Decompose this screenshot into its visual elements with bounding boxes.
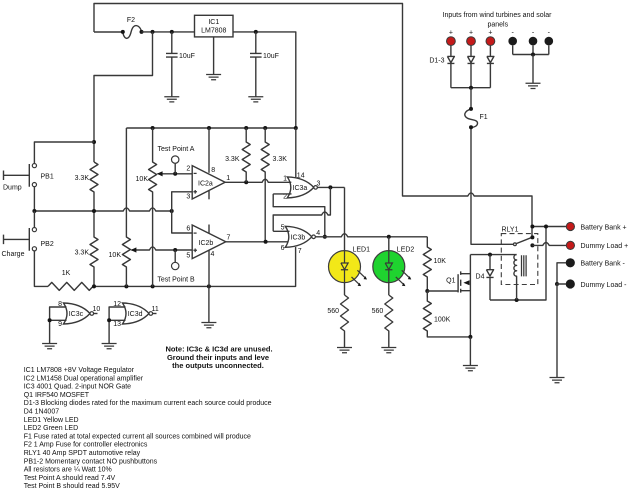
svg-text:Test Point A should read 7.4V: Test Point A should read 7.4V (24, 475, 116, 482)
svg-text:560: 560 (372, 308, 384, 315)
ground output cap (248, 97, 263, 102)
diode D2 (468, 46, 475, 88)
resistor 100K gate pulldown (423, 291, 470, 337)
LED2 emission arrows (396, 270, 410, 284)
junction dot minus junction (555, 282, 559, 286)
junction dot F2 left (121, 30, 125, 34)
relay RLY1 dashed box (501, 234, 538, 285)
output bubble IC3d (149, 312, 153, 316)
ground LED2 (381, 348, 396, 353)
svg-text:F2 1 Amp Fuse for controller e: F2 1 Amp Fuse for controller electronics (24, 442, 148, 449)
wire: ground rail (93, 247, 296, 286)
fuse F1 (465, 109, 478, 127)
junction dot test point B (173, 248, 177, 252)
output bubble IC3c (90, 312, 94, 316)
terminal Battery Bank - (566, 259, 574, 267)
svg-text:F1: F1 (480, 114, 488, 121)
wire: minus junction to ground (557, 284, 566, 378)
junction dot pullup2 top (263, 126, 267, 130)
svg-text:+: + (449, 30, 453, 37)
svg-text:5: 5 (186, 253, 190, 260)
svg-text:10uF: 10uF (179, 53, 195, 60)
wire: source ground stub (469, 337, 471, 366)
svg-text:D4 1N4007: D4 1N4007 (24, 409, 60, 416)
resistor 3.3K lower divider (90, 211, 98, 286)
NOR gate IC3b (285, 226, 312, 247)
relay coil (514, 255, 517, 300)
relay common pivot (514, 243, 517, 246)
svg-text:IC2b: IC2b (199, 240, 214, 247)
svg-text:13: 13 (113, 321, 121, 328)
terminal Dummy Load + (566, 241, 574, 249)
svg-text:LED1 Yellow LED: LED1 Yellow LED (24, 417, 79, 424)
svg-text:10K: 10K (136, 176, 149, 183)
svg-text:1K: 1K (62, 270, 71, 277)
ground output minus (550, 378, 565, 383)
svg-text:3.3K: 3.3K (225, 156, 240, 163)
wire: NC contact to dummy load plus (532, 243, 566, 246)
wire: gate node to Q1 gate (427, 290, 458, 292)
svg-text:Battery Bank +: Battery Bank + (581, 224, 627, 231)
junction dot PB1 feed (92, 140, 96, 144)
svg-text:-: - (532, 30, 535, 37)
svg-text:8: 8 (211, 167, 215, 174)
svg-text:3: 3 (186, 194, 190, 201)
minus terminal source 3 (545, 37, 554, 46)
svg-text:Q1 IRF540 MOSFET: Q1 IRF540 MOSFET (24, 392, 90, 399)
resistor 3.3K upper divider (90, 162, 98, 211)
resistor 1K (48, 282, 93, 290)
wire: IC3d output stub (153, 313, 157, 315)
LED1 diode symbol (341, 251, 348, 283)
wire: minus bus to ground (532, 55, 534, 84)
relay arm (516, 237, 532, 243)
wire: IC3a pin2 input (273, 193, 291, 195)
minus terminal source 2 (529, 37, 538, 46)
junction dot rail pot1 (151, 284, 155, 288)
svg-text:3.3K: 3.3K (273, 156, 288, 163)
wire: raw supply down-left to pushbutton rail (94, 32, 153, 162)
svg-text:Dummy Load +: Dummy Load + (581, 243, 628, 250)
wire: IC3b pin5 input (273, 230, 289, 232)
svg-text:Battery Bank -: Battery Bank - (581, 261, 626, 268)
junction dot D4 top (488, 253, 492, 257)
wire: IC2a pin8 supply (208, 128, 210, 173)
wire: IC2b output to IC3b pin6 (226, 241, 288, 243)
svg-text:Q1: Q1 (446, 278, 455, 285)
wire: bus to F1 (470, 88, 472, 109)
wire: IC3d inputs tied to ground (109, 307, 125, 344)
resistor 10K gate divider (423, 237, 431, 291)
svg-text:IC1: IC1 (208, 19, 219, 26)
svg-text:LED1: LED1 (353, 247, 371, 254)
resistor 3.3K pullup IC2a (242, 128, 250, 182)
junction dot IC3c inputs (48, 318, 52, 322)
plus sign IC2b pin5 (193, 249, 197, 253)
svg-text:6: 6 (281, 245, 285, 252)
svg-text:D4: D4 (476, 274, 485, 281)
junction dot coil bottom (515, 298, 519, 302)
svg-text:IC3a: IC3a (293, 185, 308, 192)
junction dot bus right end (294, 126, 298, 130)
wire: IC3b output bus to LEDs (315, 234, 427, 237)
op-amp IC2a (192, 166, 225, 199)
diode D3 (487, 46, 494, 88)
output bubble IC3b (312, 235, 316, 239)
wire: LED1 to resistor (344, 283, 346, 295)
output bubble IC3a (314, 186, 318, 190)
relay core lines (522, 255, 527, 276)
wire: IC2b pin6 from sense node (172, 211, 193, 233)
wire: F2 to IC1 input (142, 31, 195, 33)
svg-text:100K: 100K (434, 317, 451, 324)
wire: IC1 ground stub (213, 37, 215, 75)
feedback IC3a output to IC3b pin5 (273, 187, 330, 231)
wire: IC3a output (317, 186, 344, 188)
wire: IC2b pin4 to ground rail (208, 250, 210, 286)
wire: drain to relay coil top (470, 254, 516, 256)
resistor 3.3K pullup IC2b (261, 128, 269, 242)
junction dot pot1 top (151, 126, 155, 130)
junction dot relay NO contact (530, 235, 534, 239)
svg-text:the outputs unconnected.: the outputs unconnected. (172, 361, 264, 370)
pushbutton PB2 (4, 228, 30, 251)
transistor Q1 MOSFET (457, 274, 459, 292)
svg-text:Dummy Load -: Dummy Load - (581, 282, 628, 289)
junction dot rail pot2 (124, 284, 128, 288)
pushbutton PB1 (4, 164, 30, 187)
ground Q1 source (463, 366, 478, 371)
ground main (201, 323, 216, 328)
svg-text:Test Point B: Test Point B (157, 277, 195, 284)
plus sign IC2a pin3 (193, 190, 197, 194)
junction dot cap C2 top (254, 30, 258, 34)
fuse F2 (123, 26, 142, 39)
svg-text:10uF: 10uF (263, 53, 279, 60)
svg-text:3.3K: 3.3K (75, 250, 90, 257)
svg-text:5: 5 (281, 225, 285, 232)
svg-text:Charge: Charge (2, 251, 25, 258)
junction dot relay NC contact (530, 243, 534, 247)
junction dot IC3d inputs (107, 318, 111, 322)
LED2 green circle (373, 251, 405, 283)
wire: IC3c output stub (94, 313, 98, 315)
potentiometer 10K IC2b threshold (122, 128, 130, 286)
junction dot pullup2 bottom (264, 240, 268, 244)
potentiometer 10K IC2a threshold (149, 128, 157, 286)
wire: PB1 bottom to sense node (33, 187, 35, 211)
wire: minus bus (513, 45, 549, 54)
svg-text:11: 11 (152, 306, 159, 313)
svg-text:10: 10 (93, 306, 101, 313)
wire: +8V bus (126, 127, 295, 129)
svg-text:IC3 4001 Quad. 2-input NOR Gat: IC3 4001 Quad. 2-input NOR Gate (24, 384, 131, 391)
svg-text:9: 9 (58, 321, 62, 328)
LED1 yellow circle (329, 251, 361, 283)
wire: top frame from F2 input up across to battery bank column (94, 4, 532, 238)
svg-text:LED2: LED2 (397, 247, 415, 254)
NOR gate IC3a (287, 177, 314, 198)
svg-text:+: + (488, 30, 492, 37)
svg-text:-: - (512, 30, 515, 37)
junction dot test point A (173, 172, 177, 176)
junction dot F2 right (140, 30, 144, 34)
junction dot IC2a pin8 supply (207, 126, 211, 130)
resistor 560 LED2 (385, 295, 393, 348)
terminal Battery Bank + (566, 222, 574, 230)
wiper wire pot1 to IC2a pin2 (158, 173, 193, 175)
svg-text:RLY1 40 Amp SPDT automotive re: RLY1 40 Amp SPDT automotive relay (24, 450, 141, 457)
svg-text:PB1: PB1 (41, 174, 54, 181)
resistor 560 LED1 (341, 295, 349, 348)
ground IC3c (42, 344, 57, 349)
junction dot battery plus left (530, 225, 534, 229)
capacitor 10uF output (250, 32, 262, 97)
svg-text:10K: 10K (109, 252, 122, 259)
junction dot Q1 source / 100K (468, 335, 472, 339)
svg-text:7: 7 (298, 248, 302, 255)
svg-text:1: 1 (226, 175, 230, 182)
wire: battery minus to junction (557, 263, 566, 284)
wire: main ground stub (208, 286, 210, 322)
junction dot battery plus coil branch (544, 225, 548, 229)
LED2 diode symbol (385, 251, 392, 283)
svg-text:D1-3: D1-3 (429, 58, 444, 65)
minus sign IC2b pin6 (194, 232, 197, 234)
wiper arrow pot2 (131, 247, 137, 252)
svg-text:IC1 LM7808 +8V Voltage Regulat: IC1 LM7808 +8V Voltage Regulator (24, 367, 135, 374)
wire: IC3c inputs tied to ground (50, 307, 67, 344)
svg-text:+: + (469, 30, 473, 37)
ground LED1 (337, 348, 352, 353)
svg-text:PB1-2 Momentary contact NO pus: PB1-2 Momentary contact NO pushbuttons (24, 458, 158, 465)
capacitor 10uF input (166, 32, 178, 97)
junction dot IC3b output (323, 235, 327, 239)
NOR gate IC3d (123, 303, 150, 324)
svg-text:IC3b: IC3b (291, 235, 306, 242)
wire: PB2 bottom to 1K (34, 251, 48, 287)
wire: IC2a output to IC3a pin1 (225, 179, 291, 182)
svg-text:PB2: PB2 (41, 241, 54, 248)
wire: battery bank plus (532, 226, 566, 228)
svg-text:IC2a: IC2a (198, 181, 213, 188)
svg-text:IC3c: IC3c (69, 311, 84, 318)
svg-text:-: - (548, 30, 551, 37)
junction dot raw supply branch (151, 30, 155, 34)
svg-text:Test Point B should read 5.95V: Test Point B should read 5.95V (24, 483, 120, 490)
junction dot IC3a output (328, 185, 332, 189)
feedback IC3b output to IC3a pin2 (273, 194, 325, 237)
junction dot sense opamp inputs (170, 209, 174, 213)
junction dot sense left (32, 209, 36, 213)
svg-text:560: 560 (327, 308, 339, 315)
wire: sense node horizontal (34, 208, 171, 211)
junction dot LED2 top (387, 235, 391, 239)
junction dot rail 3.3K (92, 284, 96, 288)
wire: PB1 top to raw rail (34, 142, 94, 164)
junction dot F1 top (469, 107, 473, 111)
wire: F1 down to relay common (471, 127, 513, 244)
svg-text:All resistors are ¼ Watt 10%: All resistors are ¼ Watt 10% (24, 467, 112, 474)
svg-text:F1 Fuse rated at total expecte: F1 Fuse rated at total expected current … (24, 433, 251, 440)
ground IC1 (206, 75, 221, 80)
svg-text:IC3d: IC3d (128, 311, 143, 318)
svg-text:LED2 Green LED: LED2 Green LED (24, 425, 78, 432)
junction dot F1 bottom (469, 125, 473, 129)
svg-text:IC2 LM1458 Dual operational am: IC2 LM1458 Dual operational amplifier (24, 375, 144, 382)
plus terminal source 2 (467, 37, 476, 46)
ground input cap (164, 97, 179, 102)
plus terminal source 3 (486, 37, 495, 46)
minus terminal source 1 (508, 37, 517, 46)
junction dot pullup1 bottom (244, 180, 248, 184)
svg-text:1: 1 (283, 176, 287, 183)
svg-text:Inputs from wind turbines and: Inputs from wind turbines and solar (443, 12, 553, 19)
Q1 arrow (463, 280, 469, 285)
junction dot rail IC2b pin4 ground (207, 284, 211, 288)
svg-text:panels: panels (487, 22, 508, 29)
wire: IC2a pin3 from sense node (172, 192, 193, 211)
svg-text:LM7808: LM7808 (201, 28, 226, 35)
wiper arrow pot1 (157, 171, 163, 176)
svg-text:F2: F2 (127, 17, 135, 24)
wire: coil bottom node to battery plus column (490, 227, 546, 301)
IC1 LM7808 regulator box (195, 15, 234, 37)
svg-text:7: 7 (227, 234, 231, 241)
terminal Dummy Load - (566, 280, 574, 288)
ground IC3d (102, 344, 117, 349)
ground sources minus (526, 83, 541, 88)
wire: PB2 top to sense node (33, 211, 35, 228)
diode D1 (447, 46, 454, 88)
svg-text:RLY1: RLY1 (502, 227, 519, 234)
svg-text:4: 4 (211, 251, 215, 258)
svg-text:14: 14 (297, 173, 305, 180)
wire: F2 input segment (94, 31, 123, 33)
svg-text:3.3K: 3.3K (75, 175, 90, 182)
test point A stem and circle (174, 163, 176, 174)
wire: IC2b pin8 stub (208, 225, 210, 234)
svg-text:Dump: Dump (3, 185, 22, 192)
svg-text:2: 2 (186, 166, 190, 173)
junction dot gate node (425, 289, 429, 293)
svg-text:Test Point A: Test Point A (158, 146, 195, 153)
wire: IC3a output down to LED1 (344, 187, 346, 250)
svg-text:D1-3 Blocking diodes rated for: D1-3 Blocking diodes rated for the maxim… (24, 400, 272, 407)
svg-text:6: 6 (186, 226, 190, 233)
junction dot pullup1 top (244, 126, 248, 130)
LED1 emission arrows (352, 270, 366, 284)
wire: Q1 drain-source vertical (469, 255, 471, 337)
junction dot cap C1 top (170, 30, 174, 34)
junction dot sense divider (92, 209, 96, 213)
wiper wire pot2 to IC2b pin5 (131, 247, 192, 250)
junction dot diode bus (469, 86, 473, 90)
wire: bus down to LED2 (388, 237, 390, 251)
wire: diode output bus (451, 87, 491, 89)
wire: IC2a pin4 stub (208, 191, 210, 200)
wire: IC1 output to +8V bus (233, 32, 296, 128)
junction dot minus bus (531, 53, 535, 57)
svg-text:10K: 10K (434, 258, 447, 265)
minus sign IC2a pin2 (194, 172, 197, 174)
plus terminal source 1 (447, 37, 456, 46)
op-amp IC2b (192, 225, 226, 259)
test point B stem and circle (174, 250, 176, 262)
svg-text:3: 3 (317, 181, 321, 188)
wire: IC3a pin14 supply (295, 128, 297, 178)
wire: LED2 to resistor (388, 283, 390, 295)
NOR gate IC3c (64, 303, 91, 324)
diode D4 (486, 255, 493, 300)
